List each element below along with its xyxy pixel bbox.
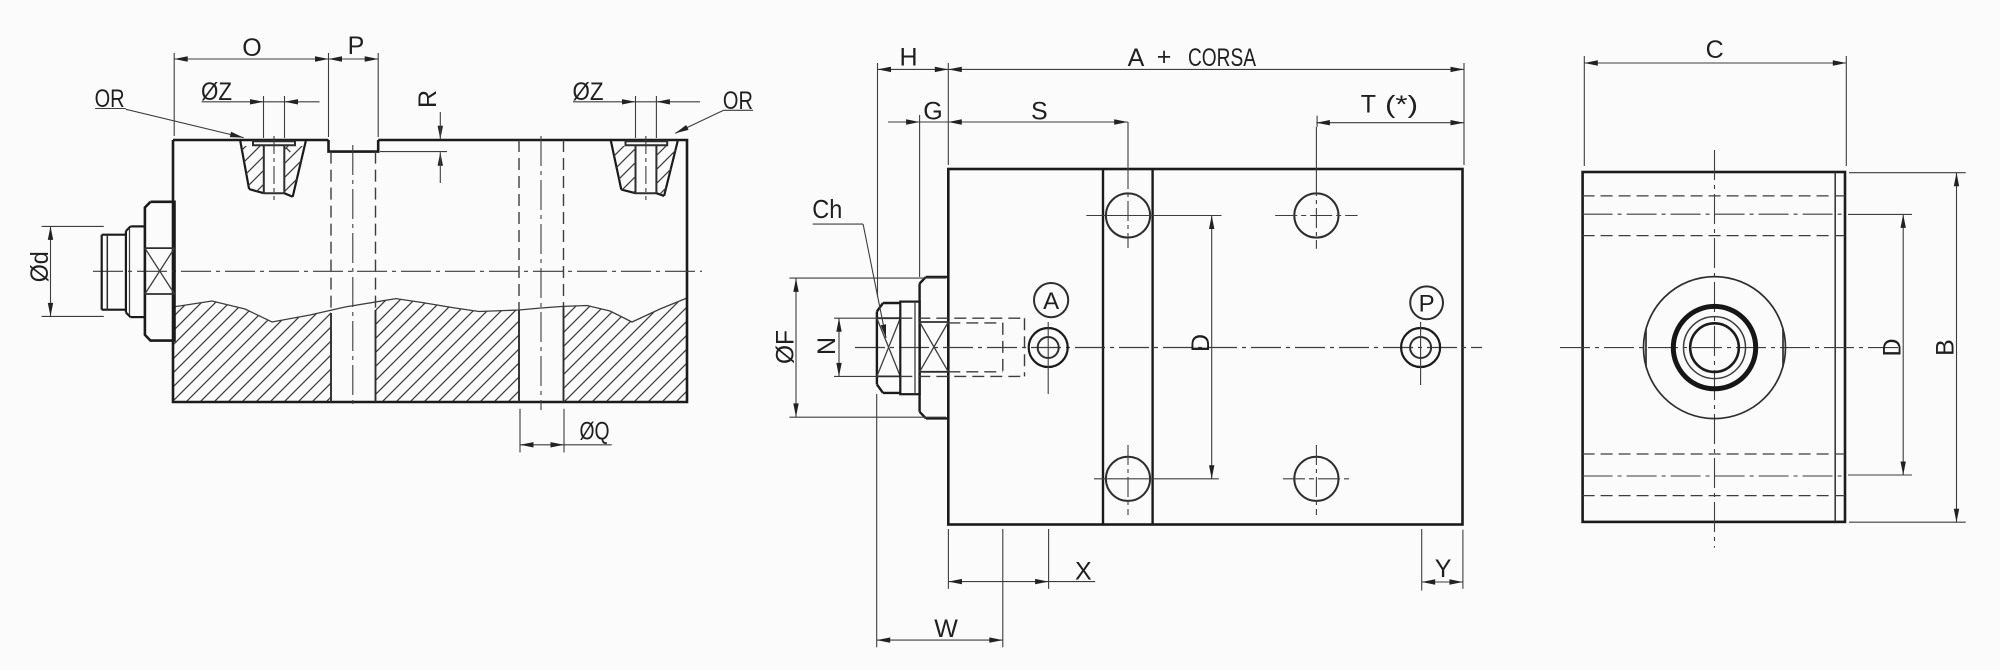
- svg-text:ØZ: ØZ: [201, 78, 232, 106]
- svg-text:O: O: [242, 34, 261, 62]
- svg-text:Ød: Ød: [26, 251, 54, 282]
- svg-text:A: A: [1128, 44, 1145, 72]
- svg-text:B: B: [1932, 339, 1960, 356]
- svg-text:+: +: [1157, 43, 1172, 71]
- svg-text:ØZ: ØZ: [573, 78, 604, 106]
- svg-text:W: W: [934, 615, 958, 643]
- svg-text:X: X: [1075, 557, 1092, 585]
- svg-text:H: H: [899, 44, 917, 72]
- svg-text:N: N: [813, 337, 841, 355]
- svg-text:ØQ: ØQ: [580, 418, 610, 446]
- svg-text:CORSA: CORSA: [1188, 44, 1256, 72]
- svg-text:ØF: ØF: [772, 330, 800, 364]
- svg-text:Ch: Ch: [812, 194, 842, 224]
- svg-text:D: D: [1187, 334, 1215, 352]
- svg-text:T: T: [1361, 91, 1376, 119]
- svg-text:D: D: [1879, 338, 1907, 356]
- svg-text:(*): (*): [1385, 91, 1418, 119]
- svg-text:G: G: [923, 98, 942, 126]
- svg-text:Y: Y: [1435, 555, 1452, 583]
- svg-text:A: A: [1043, 288, 1059, 315]
- svg-text:R: R: [414, 90, 442, 108]
- svg-text:P: P: [1419, 291, 1435, 318]
- svg-text:C: C: [1706, 36, 1724, 64]
- svg-text:S: S: [1031, 98, 1048, 126]
- svg-text:P: P: [348, 32, 365, 60]
